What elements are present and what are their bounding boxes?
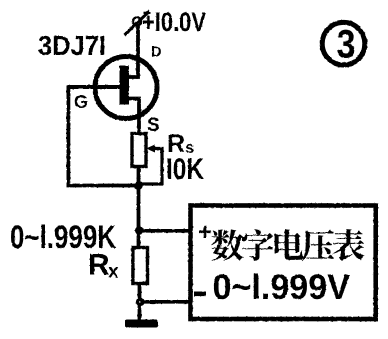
svg-text:+: + xyxy=(198,219,212,246)
svg-text:+I0.0V: +I0.0V xyxy=(142,7,206,37)
svg-text:3: 3 xyxy=(337,23,356,67)
svg-text:S: S xyxy=(147,115,160,136)
svg-text:R: R xyxy=(88,249,110,282)
svg-text:x: x xyxy=(108,262,119,283)
svg-text:3DJ7I: 3DJ7I xyxy=(38,30,106,61)
svg-text:D: D xyxy=(151,45,161,61)
svg-text:G: G xyxy=(74,92,88,112)
svg-text:I0K: I0K xyxy=(166,153,204,186)
svg-text:0~l.999V: 0~l.999V xyxy=(213,267,351,307)
